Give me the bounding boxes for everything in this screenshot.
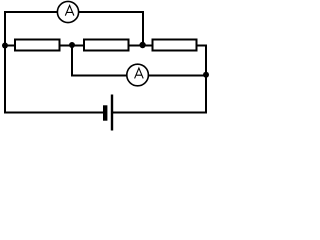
resistor R1 xyxy=(15,40,60,51)
junction node left xyxy=(2,43,8,49)
battery B1 negative plate (short thick) xyxy=(103,105,107,120)
wire right vertical xyxy=(205,45,207,114)
ammeter A1 xyxy=(57,1,78,22)
wire bottom left xyxy=(4,112,103,114)
battery B1 positive plate (long thin) xyxy=(111,95,113,131)
wire bottom right xyxy=(112,112,207,114)
ammeter A2 xyxy=(127,64,149,86)
wire top-right vertical xyxy=(142,12,144,45)
wire ammeter branch horizontal xyxy=(71,75,206,77)
junction node between R2 and R3 xyxy=(139,42,145,48)
wire left vertical xyxy=(4,11,6,113)
junction node right xyxy=(203,72,209,78)
wire ammeter branch vertical xyxy=(71,44,73,76)
resistor R2 xyxy=(84,40,129,51)
wire middle row xyxy=(4,45,207,47)
wire top horizontal xyxy=(4,11,144,13)
junction node between R1 and R2 xyxy=(69,42,75,48)
resistor R3 xyxy=(152,40,196,51)
